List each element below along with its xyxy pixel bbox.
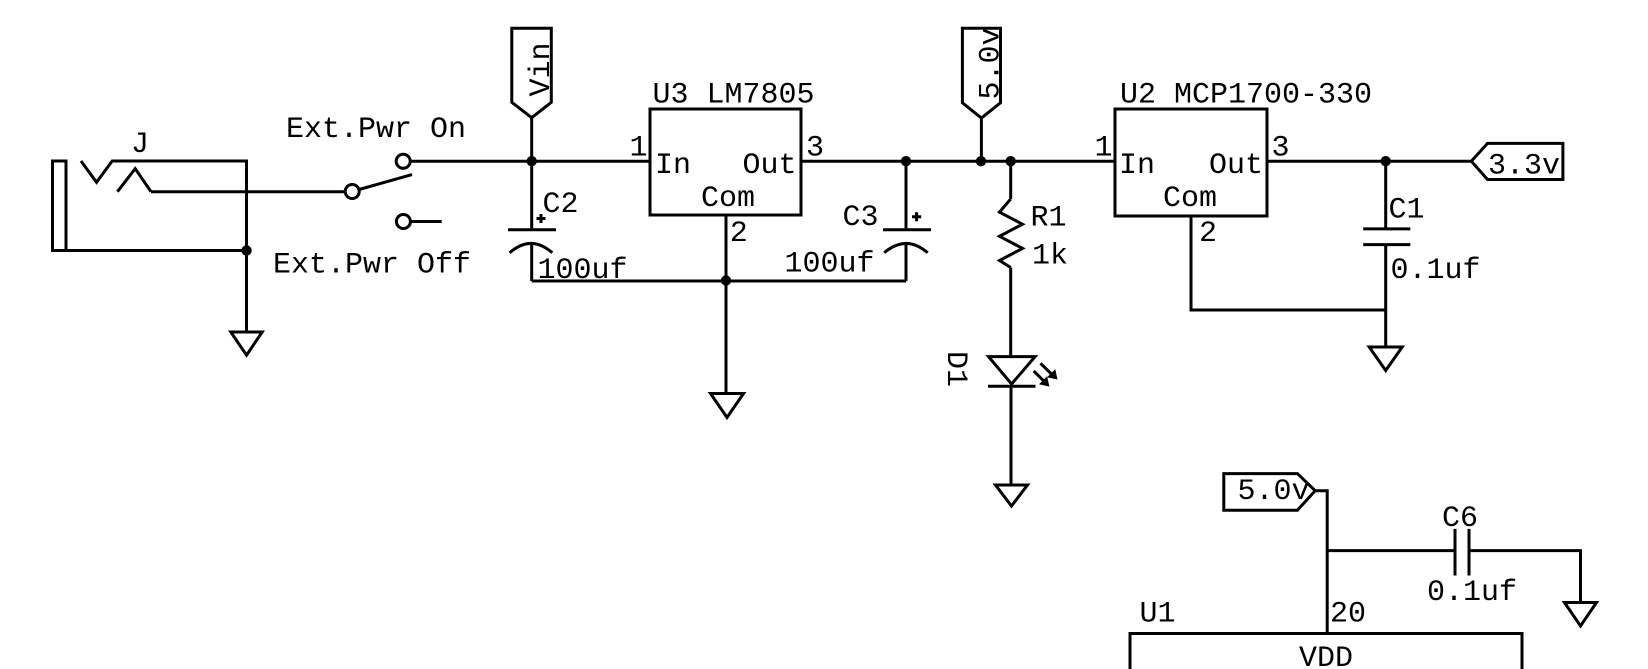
IC U1 box [1130,634,1522,669]
svg-text:Vin: Vin [525,42,559,96]
supply flag 5.0v [962,28,1000,161]
svg-text:R1: R1 [1031,202,1067,236]
capacitor C6 [1455,529,1469,576]
svg-text:In: In [1119,149,1155,183]
svg-text:C6: C6 [1442,502,1478,536]
resistor R1 [1000,161,1023,356]
wire ground rail C2 to C3 [532,280,906,283]
node ground junction at jack [241,245,251,255]
svg-text:1k: 1k [1032,240,1068,274]
svg-text:U1: U1 [1140,598,1176,632]
supply flag 5.0v at U1 [1224,474,1327,634]
wire jack tip to switch common [151,190,345,193]
svg-text:In: In [655,149,691,183]
capacitor C2 [508,161,556,281]
node R1 junction [1006,156,1016,166]
supply flag 3.3v [1471,143,1563,179]
switch Off terminal [396,215,410,229]
node rail junction at U3 pin2 [721,275,731,285]
svg-text:20: 20 [1330,598,1366,632]
pin 2 wire of U2 [1191,216,1386,310]
pin 2 wire of U3 [725,215,728,281]
node 5.0v junction [976,156,986,166]
svg-text:C1: C1 [1389,194,1425,228]
svg-text:J: J [131,128,149,162]
switch common terminal [345,185,359,199]
supply flag Vin [512,28,552,161]
node C1 junction [1381,156,1391,166]
node C3 junction [901,156,911,166]
regulator U3 box [650,109,801,215]
svg-text:Out: Out [1209,149,1263,183]
node Vin junction [527,156,537,166]
switch blade [359,175,412,190]
ground under D1 [996,485,1028,506]
svg-text:Out: Out [743,149,797,183]
wire U3 Out to U2 In [801,160,1115,163]
ground under U3 [711,281,744,418]
wire U2 Out to 3.3v flag [1267,160,1471,163]
wire D1 to ground [1010,386,1013,485]
svg-text:2: 2 [1199,217,1217,251]
svg-text:Com: Com [701,182,755,216]
ground under jack [231,251,262,356]
svg-text:5.0v: 5.0v [1238,475,1310,509]
svg-text:2: 2 [730,217,748,251]
svg-text:1: 1 [1095,132,1113,166]
svg-text:Ext.Pwr On: Ext.Pwr On [286,113,466,147]
svg-text:C3: C3 [843,201,879,235]
ground at C6 [1565,603,1597,627]
svg-text:100uf: 100uf [538,254,628,288]
capacitor C1 [1363,161,1410,310]
svg-text:C2: C2 [543,188,579,222]
wire switch to U3 In [410,160,650,163]
wire branch to C6 [1327,549,1455,552]
svg-text:Com: Com [1163,182,1217,216]
svg-text:3.3v: 3.3v [1488,150,1560,184]
ground under C1 [1369,310,1402,371]
wire C6 to ground [1469,551,1581,603]
svg-text:Ext.Pwr Off: Ext.Pwr Off [273,249,471,283]
svg-text:VDD: VDD [1299,642,1353,669]
svg-text:0.1uf: 0.1uf [1427,576,1517,610]
svg-text:U3 LM7805: U3 LM7805 [653,79,815,113]
LED D1 [988,357,1058,387]
capacitor C3 [883,161,931,281]
connector J jack outline [51,161,247,251]
regulator U2 box [1115,109,1267,216]
svg-text:U2 MCP1700-330: U2 MCP1700-330 [1120,79,1372,113]
svg-text:D1: D1 [938,351,972,387]
svg-text:5.0v: 5.0v [975,27,1009,99]
switch On terminal [396,154,410,168]
wire Off stub [410,220,441,223]
svg-text:0.1uf: 0.1uf [1391,254,1481,288]
svg-text:100uf: 100uf [785,248,875,282]
svg-text:1: 1 [630,132,648,166]
